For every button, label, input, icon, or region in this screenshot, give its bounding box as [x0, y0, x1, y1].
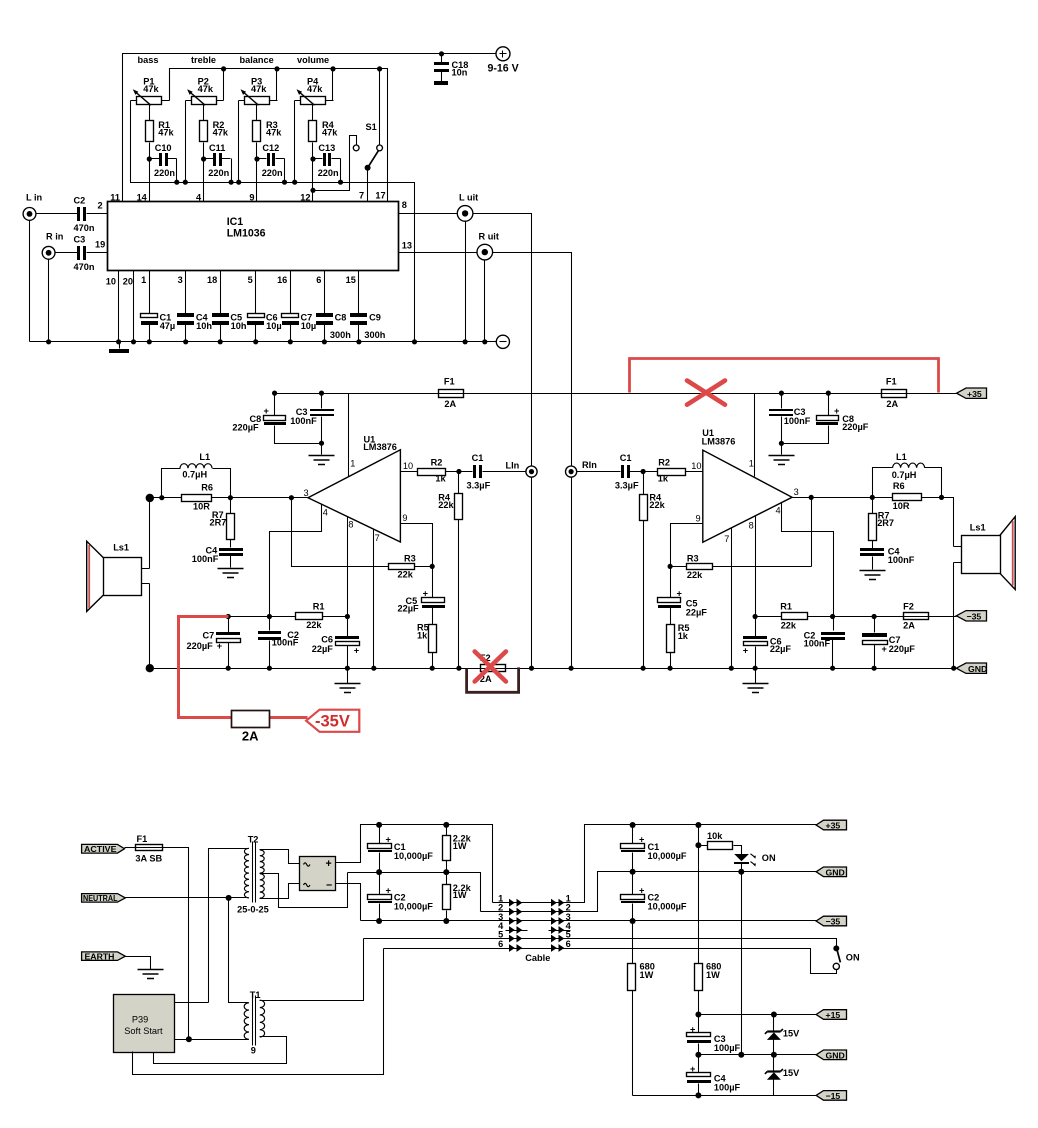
wire +35 supply rail: [275, 393, 957, 395]
svg-text:7: 7: [375, 533, 380, 543]
node bus x=149.3: [147, 339, 152, 344]
node main bus x=373.8: [371, 666, 376, 671]
node 3 branch left: [289, 495, 294, 500]
node +15 row left: [695, 1012, 701, 1018]
resistor 10k: [699, 831, 742, 855]
svg-text:F1: F1: [444, 376, 455, 386]
svg-text:100nF: 100nF: [272, 638, 299, 648]
svg-text:220µF: 220µF: [842, 422, 869, 432]
wire pin 7 right: [731, 528, 733, 669]
wire +35 column to 680: [698, 825, 700, 964]
svg-text:Ls1: Ls1: [113, 543, 129, 553]
svg-text:3.3µF: 3.3µF: [467, 481, 491, 491]
svg-text:L in: L in: [26, 193, 43, 203]
node 2.2k junction mid: [443, 869, 449, 875]
node R1 right / pin8: [345, 614, 350, 619]
svg-text:6: 6: [566, 939, 571, 949]
node +35 column top: [695, 822, 701, 828]
speaker Ls1 right: [954, 517, 1016, 590]
svg-text:100nF: 100nF: [888, 555, 915, 565]
wire R2 bottom to pin 4: [203, 143, 205, 202]
svg-text:L uit: L uit: [459, 193, 478, 203]
wire R in to C3: [55, 252, 78, 254]
capacitor C2 10000uF right: [621, 872, 687, 921]
bracket below F2: [467, 667, 519, 692]
node C11 on ground bus: [229, 180, 234, 185]
node P3 feed: [274, 66, 279, 71]
wire C3 to pin 19: [87, 252, 108, 254]
wire pin 4 left: [270, 505, 322, 631]
wire pot ground bus: [131, 101, 415, 342]
wire speaker bottom to bus: [149, 584, 151, 669]
ground under C4 right: [860, 571, 886, 580]
box P39 Soft Start: [114, 995, 175, 1053]
svg-text:2A: 2A: [444, 399, 456, 409]
fuse F2 right 2A: [903, 602, 928, 631]
wire pin 9 left: [401, 524, 433, 567]
resistor 2.2k 1W upper: [443, 825, 472, 873]
svg-text:R1: R1: [780, 601, 792, 611]
wire cable row5: [364, 939, 837, 947]
svg-text:22µF: 22µF: [770, 644, 792, 654]
resistor R6 10R left: [182, 483, 214, 512]
svg-text:15: 15: [346, 275, 356, 285]
node C1 top left: [376, 822, 382, 828]
node main bus x=670.1: [668, 666, 673, 671]
cable arrows row 4: [509, 926, 564, 934]
svg-text:5: 5: [498, 929, 503, 939]
svg-text:bass: bass: [138, 55, 159, 65]
node R1 / C2 / pin4: [267, 614, 272, 619]
svg-text:+: +: [834, 406, 839, 416]
node R2/C11 junction: [201, 156, 206, 161]
svg-text:10: 10: [106, 277, 116, 287]
node bus x=48.6: [46, 339, 51, 344]
svg-text:8: 8: [348, 519, 353, 529]
svg-text:+35: +35: [967, 389, 982, 399]
wire main ground bus: [150, 668, 954, 670]
cable arrows row 2: [509, 908, 564, 916]
node bus x=465.1: [463, 339, 468, 344]
node C12 on ground bus: [282, 180, 287, 185]
wire R uit shield down: [484, 260, 486, 342]
capacitor C5 10h: [212, 271, 247, 342]
wire pin 1 V+ left: [348, 394, 350, 477]
wire S1 right contact feed: [379, 69, 381, 145]
wire NEUTRAL to T1 primary top: [229, 898, 249, 1003]
wire speaker bottom to F2 line: [953, 563, 955, 669]
svg-text:R6: R6: [893, 481, 905, 491]
wire node3 output line right: [793, 498, 954, 547]
svg-text:2A: 2A: [242, 729, 259, 744]
node GND2 LED column: [738, 1052, 744, 1058]
svg-text:LM3876: LM3876: [702, 437, 736, 447]
tag +35: [957, 388, 987, 399]
wire pin10 to R2 left: [401, 471, 473, 473]
node main bus x=269.4: [267, 666, 272, 671]
svg-text:+: +: [639, 835, 644, 845]
capacitor C1 10000uF right: [621, 825, 687, 872]
red X on +35 rail: [687, 381, 725, 405]
node C1 right top: [630, 822, 636, 828]
wire cable row4 stubs: [506, 930, 571, 932]
svg-text:10: 10: [691, 461, 701, 471]
svg-text:+: +: [743, 645, 748, 655]
wire fuse to T1 primary bottom column: [163, 848, 189, 1040]
node main bus x=643.1: [641, 666, 646, 671]
svg-text:R2: R2: [431, 458, 443, 468]
resistor R2 1k left: [418, 458, 447, 484]
node C8 right rail: [826, 391, 831, 396]
svg-text:220n: 220n: [318, 168, 339, 178]
svg-text:C13: C13: [318, 143, 335, 153]
svg-text:−35: −35: [826, 917, 841, 927]
svg-text:47k: 47k: [307, 84, 323, 94]
svg-text:RIn: RIn: [582, 460, 597, 470]
node main bus x=874.1: [872, 666, 877, 671]
capacitor C1 3.3uF right: [577, 453, 644, 491]
switch S1: [353, 122, 382, 171]
svg-text:C2: C2: [74, 196, 86, 206]
capacitor C1 3.3uF left: [467, 453, 526, 491]
svg-text:100µF: 100µF: [714, 1082, 741, 1092]
LED ON: [734, 853, 776, 872]
switch ON remote: [833, 945, 860, 969]
node R3/C12 junction: [254, 156, 259, 161]
capacitor C2 100nF left: [258, 630, 299, 669]
wire NEUTRAL to T2 primary bottom: [126, 897, 249, 899]
capacitor C12: [257, 143, 285, 182]
svg-text:22µF: 22µF: [686, 607, 708, 617]
svg-text:+: +: [264, 406, 269, 416]
node main bus x=571.1: [569, 666, 574, 671]
transformer T2: [237, 835, 269, 915]
svg-text:9: 9: [402, 513, 407, 523]
node C7 top right: [872, 614, 877, 619]
node R1/C10 junction: [147, 156, 152, 161]
ground under C3 left: [309, 456, 335, 465]
svg-text:8: 8: [402, 200, 407, 210]
svg-text:1W: 1W: [706, 970, 720, 980]
wire pin 8 to L uit: [399, 213, 458, 215]
wire R2 to pin10 right: [644, 471, 703, 473]
svg-text:LM3876: LM3876: [363, 442, 397, 452]
capacitor C6 22uF left: [312, 635, 360, 656]
wire LED column to lower GND row: [741, 872, 743, 1055]
wire S1 pole to pin 7: [367, 168, 369, 202]
potentiometer P1: [131, 69, 170, 121]
svg-text:2: 2: [98, 201, 103, 211]
svg-text:3: 3: [178, 275, 183, 285]
wire pin 13 to R uit: [399, 252, 477, 254]
svg-text:10: 10: [403, 461, 413, 471]
svg-text:balance: balance: [240, 55, 274, 65]
node C8/C3 ground join: [319, 441, 324, 446]
IC U1 LM1036 box IC1: [108, 202, 399, 271]
svg-text:P39: P39: [132, 1015, 148, 1025]
resistor R1: [146, 120, 175, 141]
fuse F2 left 2A (bypassed): [480, 653, 506, 684]
node P4 feed: [330, 66, 335, 71]
svg-text:ON: ON: [762, 853, 776, 863]
svg-text:+: +: [217, 641, 222, 651]
svg-text:-35V: -35V: [315, 713, 350, 731]
wire preamp ground bus: [30, 341, 497, 343]
wire R1 bottom to pin 14: [149, 143, 151, 202]
svg-text:−35: −35: [967, 612, 982, 622]
node bus x=118.6: [116, 339, 121, 344]
capacitor C7 10µ: [282, 271, 317, 342]
ground EARTH: [138, 970, 164, 979]
svg-text:220µF: 220µF: [232, 422, 259, 432]
resistor R7 2R7 left: [210, 498, 235, 548]
svg-text:R uit: R uit: [479, 231, 499, 241]
wire pin 4 right: [782, 503, 834, 631]
capacitor C4 100nF left: [192, 546, 243, 568]
potentiometer P4: [295, 69, 334, 183]
connector L uit: [457, 193, 478, 222]
svg-text:1W: 1W: [453, 890, 467, 900]
resistor R3 22k left: [389, 553, 416, 579]
node R1 left / C7 top: [226, 614, 231, 619]
svg-text:1: 1: [141, 275, 146, 285]
svg-text:47k: 47k: [266, 128, 282, 138]
red X over F2: [475, 652, 506, 682]
connector LIn: [506, 460, 538, 477]
svg-text:47k: 47k: [198, 84, 214, 94]
svg-text:470n: 470n: [74, 262, 95, 272]
resistor 2.2k 1W lower: [443, 873, 472, 921]
svg-text:47k: 47k: [158, 128, 174, 138]
svg-text:10h: 10h: [231, 321, 247, 331]
potentiometer P2: [186, 69, 224, 183]
capacitor C2 10000uF left: [368, 873, 434, 921]
svg-text:F2: F2: [903, 602, 914, 612]
node R1 left / pin8 right: [753, 614, 758, 619]
svg-text:7: 7: [359, 191, 364, 201]
transformer T1: [244, 990, 264, 1056]
svg-text:C10: C10: [155, 143, 172, 153]
svg-text:10k: 10k: [707, 831, 723, 841]
svg-text:220n: 220n: [208, 168, 229, 178]
node bus x=220.2: [218, 339, 223, 344]
svg-text:+: +: [690, 1025, 695, 1035]
svg-text:GND: GND: [968, 664, 987, 674]
wire pin 20: [133, 271, 135, 342]
ground under bus left: [335, 669, 361, 693]
svg-text:+: +: [386, 886, 391, 896]
node C1 right bottom GND row: [630, 869, 636, 875]
svg-text:+: +: [882, 644, 887, 654]
wire EARTH to ground: [126, 957, 151, 970]
wire pin 9 right: [671, 524, 703, 567]
wire lower GND row: [699, 1054, 817, 1056]
node GND2 zener: [771, 1052, 777, 1058]
wire rectifier - output to bottom rail: [336, 884, 361, 921]
svg-text:6: 6: [498, 939, 503, 949]
node LED bottom GND row: [738, 869, 744, 875]
svg-text:+15: +15: [826, 1010, 841, 1020]
node bus x=358.9: [356, 339, 361, 344]
svg-text:F1: F1: [137, 834, 148, 844]
svg-text:R in: R in: [46, 231, 64, 241]
wire pin12 to S1 left contact: [313, 136, 357, 191]
node R1 right / C2 / pin4 right: [830, 614, 835, 619]
svg-text:10,000µF: 10,000µF: [648, 902, 687, 912]
svg-text:47k: 47k: [322, 128, 338, 138]
svg-text:1: 1: [350, 459, 355, 469]
svg-text:100nF: 100nF: [192, 554, 219, 564]
wire top supply rail: [123, 54, 497, 202]
cable arrows row 1: [509, 899, 564, 907]
svg-text:47k: 47k: [251, 84, 267, 94]
svg-text:10µ: 10µ: [266, 321, 282, 331]
node C2 bottom left: [376, 918, 382, 924]
resistor R3: [253, 120, 283, 141]
svg-text:16: 16: [277, 275, 287, 285]
svg-text:220n: 220n: [154, 168, 175, 178]
wire R1 line left: [229, 616, 348, 618]
red wire to -35V fuse: [179, 617, 308, 718]
svg-text:17: 17: [375, 191, 385, 201]
wire T1 primary bottom: [175, 1039, 249, 1041]
node +15 zener: [771, 1012, 777, 1018]
svg-text:20: 20: [123, 277, 133, 287]
node R6 left right-channel: [870, 495, 875, 500]
resistor 680 1W right column: [695, 962, 722, 1015]
tag +35 psu: [816, 820, 846, 830]
svg-text:5: 5: [566, 929, 571, 939]
svg-text:22k: 22k: [687, 570, 703, 580]
svg-text:LIn: LIn: [506, 460, 520, 470]
svg-text:300h: 300h: [364, 330, 385, 340]
capacitor C4 100uF psu: [687, 1055, 741, 1096]
tag +15 psu: [816, 1010, 846, 1020]
svg-text:3: 3: [794, 487, 799, 497]
node L1/R6 left end: [159, 495, 164, 500]
node bus x=484.8: [482, 339, 487, 344]
node R6 right / speaker: [939, 495, 944, 500]
node speaker top big: [146, 494, 154, 502]
resistor R1 22k left: [296, 602, 325, 630]
wire 0V mid rail: [348, 873, 481, 912]
capacitor C6 10µ: [247, 271, 282, 342]
node L1/R6 right end / R7: [228, 495, 233, 500]
svg-text:1k: 1k: [417, 631, 428, 641]
resistor 680 1W left column: [628, 921, 655, 1096]
svg-text:C9: C9: [369, 312, 381, 322]
svg-text:+: +: [639, 886, 644, 896]
wire rectifier + output to top rail: [336, 825, 493, 903]
node R3 left / C5 right: [668, 564, 673, 569]
svg-text:ON: ON: [846, 953, 860, 963]
node C3/C8 ground join right: [779, 441, 784, 446]
svg-text:+: +: [354, 645, 359, 655]
svg-text:C12: C12: [262, 143, 279, 153]
svg-text:3: 3: [304, 488, 309, 498]
ground under C3 right: [769, 456, 795, 465]
capacitor C5 22uF right: [658, 567, 708, 625]
svg-text:R3: R3: [687, 553, 699, 563]
svg-text:LM1036: LM1036: [227, 228, 266, 240]
svg-text:GND: GND: [826, 1050, 845, 1060]
svg-text:−: −: [326, 879, 332, 891]
node GND2 C3: [695, 1052, 701, 1058]
resistor R4 22k left: [438, 472, 462, 669]
wire soft start to T2 primary feed: [175, 1002, 209, 1004]
capacitor C18: [434, 54, 468, 82]
fuse F1 3A SB: [135, 834, 162, 864]
svg-text:9-16 V: 9-16 V: [488, 62, 519, 74]
resistor R2 1k right: [658, 458, 686, 484]
wire pin 7 left: [373, 530, 375, 669]
resistor R5 1k left: [417, 622, 437, 668]
svg-text:10,000µF: 10,000µF: [394, 851, 433, 861]
svg-text:Cable: Cable: [525, 953, 550, 963]
node C18 junction: [439, 51, 444, 56]
wire R3 line right: [671, 566, 812, 568]
wire node3 to R3 left: [292, 498, 433, 567]
cable arrows row 5: [509, 935, 564, 943]
capacitor C3 470n: [74, 235, 95, 272]
tag GND psu: [816, 1050, 846, 1060]
wire L in to C2: [36, 213, 78, 215]
wire cable row6: [384, 949, 837, 974]
svg-text:13: 13: [402, 241, 412, 251]
op-amp U1 LM3876 right: [691, 428, 798, 544]
svg-text:S1: S1: [366, 122, 377, 132]
wire pin 8 right: [755, 517, 757, 669]
svg-text:10,000µF: 10,000µF: [648, 851, 687, 861]
node C3 left rail: [319, 391, 324, 396]
svg-text:22k: 22k: [438, 500, 454, 510]
node main bus x=531.5: [529, 666, 534, 671]
svg-text:19: 19: [95, 240, 105, 250]
svg-text:220µF: 220µF: [889, 644, 916, 654]
node main bus x=731.3: [729, 666, 734, 671]
zener diode 15V upper: [765, 1015, 800, 1055]
ground under bus right: [743, 669, 769, 693]
node main bus x=458.9: [456, 666, 461, 671]
svg-text:volume: volume: [297, 55, 329, 65]
svg-text:+35: +35: [826, 821, 841, 831]
svg-text:T2: T2: [248, 835, 259, 845]
inductor L1 0.7uH left: [162, 452, 231, 497]
svg-text:R1: R1: [313, 602, 325, 612]
wire node3 to R3 right: [811, 498, 813, 567]
node main bus x=755.1: [753, 666, 758, 671]
svg-text:treble: treble: [191, 55, 216, 65]
capacitor C1 47µ: [141, 271, 176, 342]
svg-text:100nF: 100nF: [804, 639, 831, 649]
node bus x=414.5: [412, 339, 417, 344]
node P2 feed: [221, 66, 226, 71]
resistor R4 22k right: [640, 472, 666, 669]
wire pin 1 V+ right: [754, 394, 756, 477]
node C10 on ground bus: [174, 180, 179, 185]
svg-text:10µ: 10µ: [301, 321, 317, 331]
ground preamp: [109, 342, 129, 354]
svg-text:4: 4: [776, 506, 781, 516]
svg-text:2A: 2A: [886, 399, 898, 409]
fuse F1 left 2A: [439, 376, 464, 409]
node bus x=324.4: [322, 339, 327, 344]
wire R1 line right: [756, 616, 957, 618]
op-amp U1 LM3876 left: [304, 434, 414, 543]
capacitor C2 100nF right: [804, 630, 845, 668]
svg-text:2R7: 2R7: [877, 518, 894, 528]
capacitor C4 100nF right: [860, 547, 915, 570]
